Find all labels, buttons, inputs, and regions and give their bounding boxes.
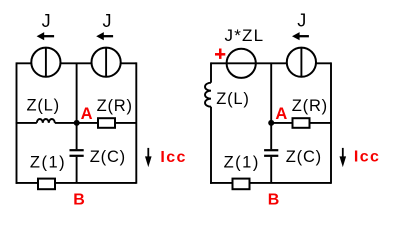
svg-text:Z(1): Z(1) [30, 154, 66, 172]
wire: left circuit left rail (vertical) [16, 62, 18, 183]
svg-text:Icc: Icc [354, 148, 380, 165]
node A junction dot left circuit [74, 120, 80, 126]
current direction arrow above right J (pointing left) [292, 32, 309, 40]
wire: right circuit bottom rail right of resistor Z(1) [250, 182, 332, 184]
svg-text:Z(L): Z(L) [216, 90, 249, 108]
wire: left circuit top rail (horizontal) [17, 62, 137, 64]
node A junction dot right circuit [268, 120, 274, 126]
svg-text:Z(1): Z(1) [224, 154, 260, 172]
wire: left circuit middle vertical rail from top wire to capacitor [76, 63, 78, 149]
resistor Z(R) left circuit [98, 118, 115, 128]
wire: left circuit bottom rail left of resistor Z(1) [16, 182, 38, 184]
svg-text:Z(C): Z(C) [90, 148, 126, 166]
svg-text:Z(L): Z(L) [27, 96, 60, 114]
capacitor Z(C) right circuit: bottom plate [264, 155, 278, 157]
svg-text:Z(C): Z(C) [286, 148, 322, 166]
svg-text:Z(R): Z(R) [292, 97, 328, 115]
capacitor Z(C) right circuit: top plate [264, 149, 278, 151]
wire: left circuit middle vertical rail from capacitor to bottom wire [76, 157, 78, 183]
wire: right circuit right rail (vertical) [330, 62, 332, 183]
resistor Z(1) right circuit [233, 179, 250, 190]
current direction arrow above J2 (pointing left) [96, 32, 113, 40]
short-circuit current arrow Icc right circuit (down) [340, 148, 347, 167]
wire: right circuit top rail (horizontal) [211, 62, 331, 64]
svg-text:B: B [73, 191, 85, 208]
capacitor Z(C) left circuit: bottom plate [70, 155, 84, 157]
resistor Z(R) right circuit [293, 118, 310, 128]
short-circuit current arrow Icc left circuit (down) [145, 148, 152, 167]
wire: left circuit middle horizontal wire from inductor to resistor Z(R) [55, 122, 98, 124]
svg-text:Icc: Icc [160, 149, 186, 166]
svg-text:J: J [103, 11, 112, 31]
wire: right circuit left rail lower segment (below coil) [210, 107, 212, 184]
wire: right circuit middle horizontal wire from resistor to right rail [310, 122, 332, 124]
svg-text:B: B [268, 192, 280, 209]
current source J right circuit (circle) [287, 48, 316, 77]
current source J1 left circuit (circle) [31, 48, 60, 77]
wire: right circuit middle vertical rail from capacitor to bottom wire [270, 157, 272, 183]
current source J1 left circuit internal vertical bar [45, 48, 47, 77]
svg-text:A: A [275, 105, 287, 123]
svg-text:A: A [81, 105, 93, 123]
voltage source J*ZL right circuit (circle, wire passes through) [227, 49, 256, 78]
capacitor Z(C) left circuit: top plate [70, 149, 84, 151]
wire: left circuit middle horizontal wire from resistor to right rail [115, 122, 136, 124]
wire: left circuit right rail (vertical) [135, 62, 137, 183]
polarity mark + of voltage source (red) [215, 49, 225, 59]
wire: right circuit left rail upper segment (above coil) [210, 62, 212, 82]
wire: right circuit middle horizontal wire from node A to resistor Z(R) [271, 122, 292, 124]
wire: right circuit middle vertical rail from top wire to capacitor [270, 63, 272, 149]
svg-text:J*ZL: J*ZL [225, 26, 265, 45]
inductor Z(L) left circuit (horizontal coil) [37, 119, 55, 123]
svg-text:J: J [297, 10, 306, 30]
wire: left circuit middle horizontal wire segment left of inductor [16, 122, 37, 124]
resistor Z(1) left circuit [38, 179, 55, 190]
svg-text:J: J [42, 11, 51, 31]
current source J right circuit internal vertical bar [300, 48, 302, 77]
current direction arrow above J1 (pointing left) [37, 32, 55, 40]
current source J2 left circuit (circle) [92, 48, 121, 77]
svg-text:Z(R): Z(R) [97, 97, 133, 115]
wire: right circuit bottom rail left of resistor Z(1) [210, 182, 232, 184]
current source J2 left circuit internal vertical bar [105, 48, 107, 77]
wire: left circuit bottom rail right of resistor Z(1) [55, 182, 136, 184]
inductor Z(L) right circuit (vertical coil on left rail) [205, 83, 211, 107]
